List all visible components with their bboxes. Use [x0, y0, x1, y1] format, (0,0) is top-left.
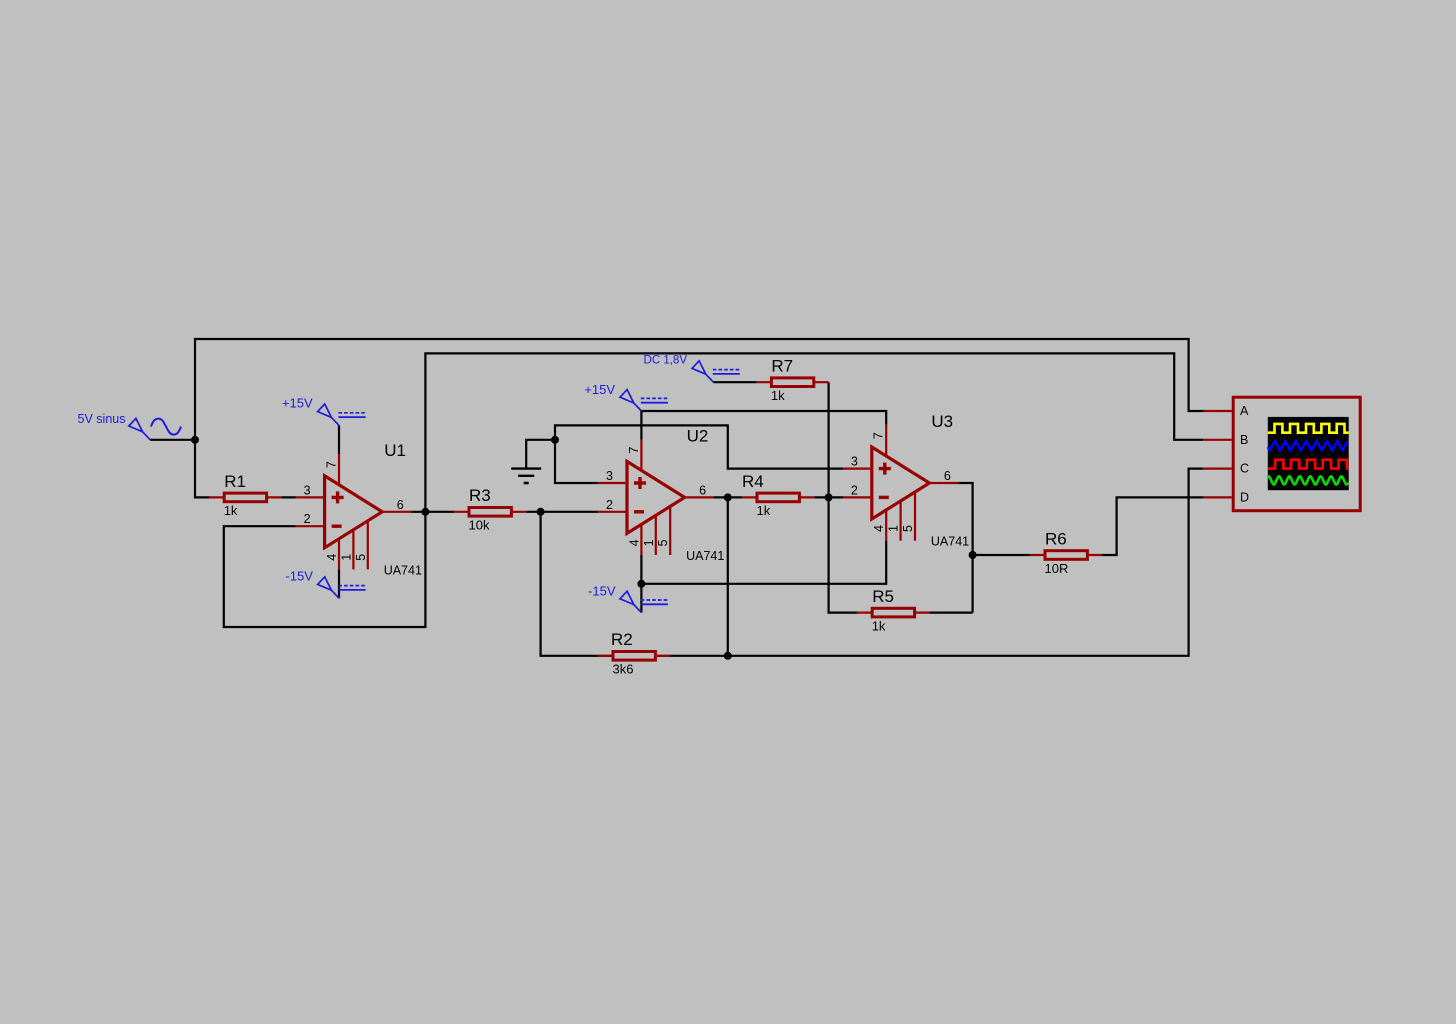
- svg-text:7: 7: [324, 461, 338, 468]
- svg-text:7: 7: [627, 447, 641, 454]
- svg-text:U1: U1: [384, 441, 406, 460]
- svg-text:6: 6: [944, 469, 951, 483]
- svg-text:6: 6: [699, 483, 706, 497]
- svg-text:5: 5: [901, 525, 915, 532]
- svg-text:3: 3: [606, 469, 613, 483]
- svg-text:-15V: -15V: [588, 583, 616, 598]
- svg-text:DC 1,8V: DC 1,8V: [644, 355, 688, 367]
- svg-text:R6: R6: [1045, 529, 1067, 548]
- svg-text:6: 6: [397, 498, 404, 512]
- svg-text:+15V: +15V: [282, 396, 313, 411]
- svg-text:1: 1: [339, 554, 353, 561]
- svg-text:R1: R1: [224, 472, 246, 491]
- svg-text:-15V: -15V: [285, 568, 313, 583]
- svg-text:3: 3: [851, 455, 858, 469]
- svg-text:1k: 1k: [771, 388, 785, 403]
- svg-text:D: D: [1240, 490, 1249, 504]
- svg-text:4: 4: [325, 554, 339, 561]
- svg-text:4: 4: [872, 525, 886, 532]
- svg-text:5: 5: [656, 539, 670, 546]
- svg-text:5: 5: [354, 554, 368, 561]
- svg-text:A: A: [1240, 404, 1249, 418]
- svg-text:R2: R2: [611, 630, 633, 649]
- svg-text:10R: 10R: [1045, 561, 1069, 576]
- svg-text:1k: 1k: [757, 503, 771, 518]
- svg-text:+15V: +15V: [584, 382, 615, 397]
- svg-text:B: B: [1240, 433, 1248, 447]
- svg-text:2: 2: [304, 512, 311, 526]
- svg-text:U3: U3: [931, 412, 953, 431]
- svg-text:UA741: UA741: [384, 563, 422, 577]
- svg-text:3k6: 3k6: [613, 662, 634, 677]
- svg-text:R7: R7: [771, 357, 793, 376]
- svg-text:R5: R5: [872, 587, 894, 606]
- svg-text:1k: 1k: [872, 618, 886, 633]
- svg-text:C: C: [1240, 462, 1249, 476]
- svg-text:2: 2: [606, 498, 613, 512]
- svg-text:7: 7: [872, 432, 886, 439]
- svg-text:5V sinus: 5V sinus: [78, 412, 126, 426]
- svg-text:1: 1: [642, 539, 656, 546]
- svg-text:UA741: UA741: [686, 549, 724, 563]
- svg-text:U2: U2: [687, 426, 709, 445]
- svg-text:1: 1: [887, 525, 901, 532]
- svg-text:UA741: UA741: [931, 535, 969, 549]
- svg-text:1k: 1k: [224, 503, 238, 518]
- svg-text:10k: 10k: [469, 518, 490, 533]
- svg-text:R4: R4: [742, 472, 764, 491]
- svg-text:4: 4: [627, 539, 641, 546]
- svg-text:3: 3: [304, 483, 311, 497]
- svg-text:R3: R3: [469, 486, 491, 505]
- svg-text:2: 2: [851, 483, 858, 497]
